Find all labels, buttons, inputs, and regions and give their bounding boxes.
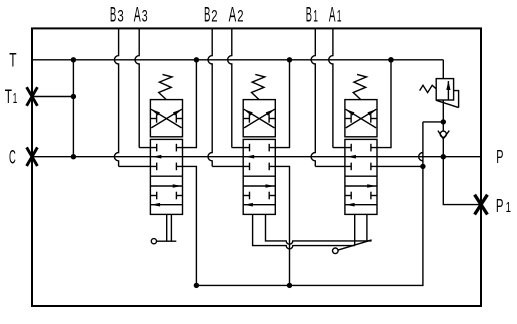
outer border of valve block bbox=[32, 28, 481, 306]
junction dot T1/bus bbox=[71, 94, 76, 99]
valve V1 neutral top-right port bar bbox=[370, 144, 372, 152]
svg-text:T: T bbox=[5, 86, 12, 108]
wire B3 line bbox=[114, 28, 118, 166]
valve V2 carry-over arrow bbox=[245, 155, 254, 159]
valve V3 neutral top-right port bar bbox=[175, 144, 177, 152]
svg-text:C: C bbox=[9, 147, 16, 169]
junction dot T/bus bbox=[71, 57, 76, 62]
valve V3 neutral top-left port bar bbox=[156, 144, 158, 152]
wire valve V3 bottom-right port to bottom bus bbox=[176, 166, 196, 285]
svg-text:P: P bbox=[496, 195, 504, 216]
junction dot bus under V3 bbox=[194, 283, 199, 288]
svg-text:B: B bbox=[204, 4, 210, 27]
plugged port C (X symbol) bbox=[27, 147, 38, 166]
valve V3 spool body bbox=[150, 139, 182, 214]
wire relief drain link bbox=[423, 121, 443, 123]
wire A2 to top-left port bbox=[232, 147, 250, 149]
valve V1 carry-over arrow bbox=[347, 155, 356, 159]
valve V2 neutral bottom-right port bar bbox=[268, 163, 270, 171]
valve V3 compensator left port bracket bbox=[150, 118, 156, 120]
valve V3 return spring bbox=[159, 74, 172, 99]
junction dot P line bbox=[441, 154, 446, 159]
wire valve V3 top-right port to T bbox=[176, 60, 196, 148]
valve V1 spool body bbox=[345, 139, 377, 214]
valve V3 work position left port bbox=[150, 195, 156, 197]
svg-text:2: 2 bbox=[237, 8, 243, 26]
relief valve RV1 body bbox=[436, 79, 453, 100]
valve V1 work position flow line left bbox=[345, 204, 377, 206]
valve V1 work position left port bbox=[345, 195, 351, 197]
wire T line (tank gallery) bbox=[32, 59, 443, 61]
valve V2 compensator right port bracket bbox=[269, 118, 275, 120]
wire relief outlet down bbox=[442, 100, 444, 131]
svg-text:2: 2 bbox=[211, 8, 217, 26]
relief valve RV1 spring bbox=[420, 85, 437, 92]
relief valve RV1 flow arrow bbox=[447, 81, 449, 99]
valve V3 lever pivot circle bbox=[151, 239, 156, 244]
wire valve V1 bottom-right port to drain bbox=[371, 165, 423, 167]
wire P1 branch bbox=[443, 157, 481, 205]
valve V2 work position left port bbox=[243, 195, 249, 197]
wire valve V2 top-right port to T bbox=[269, 60, 289, 148]
wire check valve to P junction bbox=[442, 139, 444, 157]
wire B2 to bottom-left port bbox=[212, 165, 249, 167]
svg-text:3: 3 bbox=[117, 8, 123, 26]
relief valve RV1 pilot line bbox=[454, 91, 459, 108]
valve V2 work position flow line right bbox=[243, 185, 275, 187]
valve V1 actuator stem bbox=[354, 214, 356, 245]
wire T1 stub bbox=[32, 96, 73, 98]
valve V2 compensator box (crossed arrows) bbox=[243, 100, 275, 137]
relief valve RV1 adjustment diagonal bbox=[436, 100, 458, 107]
wire B3 to bottom-left port bbox=[119, 165, 157, 167]
valve V3 carry-over arrow bbox=[152, 155, 161, 159]
valve V2 spool divider bbox=[243, 175, 275, 177]
valve V3 crossed flow path 1 bbox=[151, 109, 182, 128]
valve V2 neutral top-right port bar bbox=[268, 144, 270, 152]
wire C / carry-over / P line bbox=[32, 156, 481, 158]
valve V1 manual lever diagonal bbox=[338, 240, 372, 250]
wire T line drop to relief inlet bbox=[442, 60, 444, 79]
junction dot T line valve V1 bbox=[388, 57, 393, 62]
valve V1 lever pivot circle bbox=[333, 248, 339, 254]
wire A3 to top-left port bbox=[139, 147, 157, 149]
wire valve V1 top-right port to T bbox=[371, 60, 391, 148]
valve V2 neutral bottom-left port bar bbox=[249, 163, 251, 171]
valve V2 neutral top-left port bar bbox=[249, 144, 251, 152]
junction dot T line valve V3 bbox=[194, 57, 199, 62]
valve V3 work position flow line left bbox=[150, 204, 182, 206]
wire left bus vertical bbox=[72, 60, 74, 157]
plugged port T1 (X symbol) bbox=[27, 87, 38, 106]
valve V2 crossed flow path 1 bbox=[244, 109, 275, 128]
junction dot drain/V1 port bbox=[420, 164, 425, 169]
valve V1 return spring bbox=[353, 74, 366, 99]
valve V1 neutral top-left port bar bbox=[350, 144, 352, 152]
valve V3 compensator right port bracket bbox=[176, 118, 182, 120]
valve V2 compensator left port bracket bbox=[243, 118, 249, 120]
check valve CV1 ball bbox=[440, 131, 446, 137]
svg-text:B: B bbox=[110, 4, 116, 27]
junction dot T line valve V2 bbox=[287, 57, 292, 62]
valve V3 spool divider bbox=[150, 175, 182, 177]
junction dot relief outlet bbox=[441, 119, 446, 124]
svg-text:A: A bbox=[329, 4, 336, 27]
svg-text:1: 1 bbox=[313, 8, 318, 26]
plugged port P1 (X symbol) bbox=[475, 195, 488, 215]
wire A1 to top-left port bbox=[333, 147, 351, 149]
svg-text:3: 3 bbox=[142, 8, 148, 26]
svg-text:1: 1 bbox=[506, 200, 511, 216]
svg-text:P: P bbox=[496, 146, 503, 167]
valve V1 compensator right port bracket bbox=[371, 118, 377, 120]
valve V3 manual lever bbox=[157, 240, 177, 242]
valve V1 crossed flow path 2 bbox=[346, 109, 377, 128]
wire V2 right port linkage bbox=[266, 214, 372, 244]
valve V2 crossed flow path 2 bbox=[244, 109, 275, 128]
wire B2 line bbox=[208, 28, 212, 166]
valve V3 work position right port bbox=[176, 195, 182, 197]
valve V1 work position right port bbox=[371, 195, 377, 197]
valve V2 work position flow line left bbox=[243, 204, 275, 206]
valve V1 work position flow line right bbox=[345, 185, 377, 187]
wire B1 to bottom-left port bbox=[315, 165, 351, 167]
svg-text:1: 1 bbox=[13, 90, 17, 107]
junction dot T line at relief branch bbox=[388, 57, 393, 62]
valve V1 compensator left port bracket bbox=[345, 118, 351, 120]
svg-text:1: 1 bbox=[337, 8, 342, 26]
valve V2 return spring bbox=[252, 74, 265, 99]
valve V3 actuator stem bbox=[166, 214, 168, 241]
valve V1 spool divider bbox=[345, 175, 377, 177]
svg-text:A: A bbox=[229, 4, 237, 27]
junction dot bus under V2 bbox=[287, 283, 292, 288]
svg-text:T: T bbox=[9, 50, 16, 72]
valve V1 neutral bottom-right port bar bbox=[370, 163, 372, 171]
wire A3 line bbox=[135, 28, 139, 147]
valve V3 work position flow line right bbox=[150, 185, 182, 187]
valve V2 spool body bbox=[243, 139, 275, 214]
valve V3 compensator box (crossed arrows) bbox=[150, 100, 182, 137]
wire V2 left port linkage bbox=[253, 214, 355, 248]
svg-text:B: B bbox=[306, 4, 312, 27]
valve V3 neutral bottom-right port bar bbox=[175, 163, 177, 171]
check valve CV1 seat bbox=[438, 131, 449, 139]
valve V1 compensator box (crossed arrows) bbox=[345, 100, 377, 137]
valve V3 neutral bottom-left port bar bbox=[156, 163, 158, 171]
valve V3 crossed flow path 2 bbox=[151, 109, 182, 128]
valve V2 work position right port bbox=[269, 195, 275, 197]
wire bottom bus bbox=[196, 166, 423, 285]
wire B1 line bbox=[311, 28, 315, 166]
valve V1 neutral bottom-left port bar bbox=[350, 163, 352, 171]
junction dot C/bus bbox=[71, 154, 76, 159]
wire A1 line bbox=[329, 28, 333, 147]
wire A2 line bbox=[228, 28, 232, 147]
wire drain vertical to relief bbox=[419, 122, 423, 166]
svg-text:A: A bbox=[134, 4, 141, 27]
wire valve V2 bottom-right port to bottom bus bbox=[269, 166, 289, 285]
valve V1 crossed flow path 1 bbox=[346, 109, 377, 128]
